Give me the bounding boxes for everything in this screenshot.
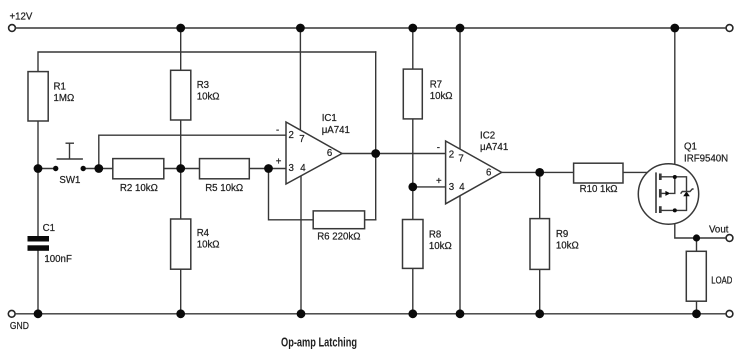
Q1 source internal wire — [662, 196, 687, 210]
Q1 body diode cathode bar — [681, 189, 694, 194]
junction R4 bottom rail — [176, 309, 185, 318]
wire +12V top rail — [16, 27, 726, 29]
wire R1 bottom to main row — [37, 121, 39, 169]
junction node A non-inverting — [264, 164, 273, 173]
wire main row to R4 — [180, 169, 182, 220]
resistor R5 — [200, 159, 250, 179]
wire R4 to GND rail — [180, 269, 182, 314]
wire R10 to Q1 gate — [623, 172, 656, 213]
resistor R1 — [28, 72, 48, 121]
svg-text:SW1: SW1 — [59, 175, 80, 186]
svg-text:3: 3 — [289, 163, 294, 174]
wire R9 top — [539, 172, 541, 218]
op-amp U1 triangle IC1 — [286, 122, 342, 184]
wire R3 top rail — [180, 28, 182, 70]
svg-text:+12V: +12V — [10, 11, 33, 22]
Q1 channel segment middle — [659, 189, 662, 197]
wire Q1 drain to +12V rail — [674, 28, 676, 177]
junction C1 bottom rail — [34, 309, 43, 318]
svg-text:10kΩ: 10kΩ — [556, 241, 579, 252]
wire R7 to +12V rail — [412, 28, 414, 69]
op-amp U2 triangle IC2 — [446, 141, 502, 204]
svg-text:μA741: μA741 — [322, 125, 350, 136]
resistor R7 — [403, 69, 422, 119]
Q1 body tie wire — [670, 177, 675, 193]
wire feedback vertical — [375, 52, 377, 220]
svg-text:2: 2 — [449, 150, 454, 161]
svg-text:R1: R1 — [54, 82, 66, 93]
wire R8 to GND rail — [412, 268, 414, 313]
svg-text:R2 10kΩ: R2 10kΩ — [120, 183, 158, 194]
Q1 body arrow head — [665, 191, 670, 196]
wire R2 to R5 — [164, 168, 200, 170]
wire R5 to IC1 non-inverting input — [249, 168, 286, 170]
svg-text:R3: R3 — [197, 80, 209, 91]
junction IC1 pin4 bottom rail — [297, 309, 306, 318]
wire LOAD top — [696, 238, 698, 251]
resistor R4 — [171, 219, 191, 269]
junction IC2 pin4 bottom rail — [456, 309, 465, 318]
junction Vout-LOAD — [693, 234, 700, 241]
resistor R8 — [403, 220, 424, 269]
svg-text:R7: R7 — [430, 80, 442, 91]
svg-text:7: 7 — [458, 154, 463, 165]
wire R7 to R8 column — [412, 119, 414, 220]
terminal +12V — [9, 25, 16, 32]
svg-text:+: + — [276, 156, 282, 167]
svg-text:4: 4 — [300, 163, 306, 174]
wire main row SW1 left — [38, 168, 56, 170]
wire R9 to GND rail — [539, 269, 541, 313]
wire C1 to GND rail — [37, 251, 39, 314]
svg-text:R9: R9 — [556, 229, 568, 240]
switch SW1 — [53, 143, 86, 171]
resistor R6 — [313, 211, 364, 229]
svg-text:7: 7 — [299, 134, 304, 145]
junction R9 bottom rail — [535, 309, 544, 318]
svg-text:μA741: μA741 — [480, 142, 508, 153]
junction R2-R5-R3 main row — [176, 164, 185, 173]
svg-text:IC1: IC1 — [322, 113, 337, 124]
wire feedback top horizontal — [38, 52, 376, 72]
junction node B right of SW1 — [94, 164, 103, 173]
Q1 body arrow line — [662, 192, 667, 194]
svg-text:Q1: Q1 — [684, 142, 697, 153]
svg-text:R8: R8 — [429, 230, 441, 241]
svg-text:10kΩ: 10kΩ — [430, 91, 453, 102]
terminal bottom-right — [726, 310, 733, 317]
wire node A to R6 left — [269, 169, 314, 220]
terminal Vout — [726, 235, 733, 242]
wire IC2 pin4 to GND rail — [459, 196, 461, 314]
svg-text:4: 4 — [459, 182, 465, 193]
junction R3 top rail — [176, 24, 185, 33]
junction Q1 drain top rail — [670, 24, 679, 33]
svg-text:Op-amp Latching: Op-amp Latching — [281, 335, 357, 350]
wire node to IC1 inverting input — [99, 135, 286, 168]
wire IC2 non-inverting input — [413, 186, 446, 188]
Q1 drain internal wire — [662, 177, 687, 192]
junction LOAD bottom rail — [692, 309, 701, 318]
svg-text:10kΩ: 10kΩ — [429, 241, 452, 252]
resistor R9 — [530, 219, 550, 270]
wire IC1 output row — [342, 153, 446, 155]
svg-text:3: 3 — [449, 182, 454, 193]
svg-text:R5 10kΩ: R5 10kΩ — [205, 183, 243, 194]
junction IC2 pin7 top rail — [456, 24, 465, 33]
svg-text:IRF9540N: IRF9540N — [684, 154, 728, 165]
load resistor LOAD — [686, 251, 706, 301]
svg-text:IC2: IC2 — [480, 130, 495, 141]
junction IC2 plus input — [408, 183, 417, 192]
junction R8 bottom rail — [408, 309, 417, 318]
junction IC1 output — [371, 149, 380, 158]
svg-text:GND: GND — [10, 321, 29, 332]
svg-text:2: 2 — [289, 130, 294, 141]
junction Q1 source internal — [673, 208, 677, 212]
wire main row to C1 — [37, 169, 39, 237]
terminal top-right — [726, 25, 733, 32]
svg-text:6: 6 — [486, 168, 491, 179]
transistor Q1 internals — [656, 172, 694, 213]
transistor Q1 body circle — [638, 164, 698, 224]
svg-text:100nF: 100nF — [44, 254, 72, 265]
svg-text:10kΩ: 10kΩ — [197, 240, 220, 251]
wire SW1 right to node — [83, 168, 113, 170]
svg-text:1MΩ: 1MΩ — [54, 93, 75, 104]
wire R3 bottom to main row — [180, 120, 182, 169]
svg-text:+: + — [436, 176, 442, 187]
svg-text:10kΩ: 10kΩ — [197, 92, 220, 103]
wire R6 right to output node — [365, 219, 376, 221]
junction IC1 pin7 top rail — [296, 24, 305, 33]
svg-text:R4: R4 — [197, 228, 210, 239]
svg-text:Vout: Vout — [709, 225, 729, 236]
Q1 body diode triangle — [683, 191, 690, 196]
capacitor C1 — [28, 236, 50, 251]
wire IC1 pin4 to GND rail — [300, 176, 302, 314]
wire IC2 pin7 to +12V rail — [459, 28, 461, 149]
wire IC2 output row — [502, 171, 574, 173]
wire LOAD to GND rail — [696, 301, 698, 314]
Q1 gate bar — [655, 172, 657, 213]
junction Q1 drain internal — [673, 175, 677, 179]
svg-text:R6 220kΩ: R6 220kΩ — [317, 232, 360, 243]
svg-text:6: 6 — [327, 148, 332, 159]
wire IC1 pin7 to +12V rail — [299, 28, 301, 131]
svg-text:-: - — [437, 143, 440, 154]
svg-text:C1: C1 — [43, 223, 55, 234]
svg-text:R10 1kΩ: R10 1kΩ — [580, 184, 618, 195]
wire GND bottom rail — [16, 313, 726, 315]
junction SW1 left column — [34, 164, 43, 173]
svg-text:LOAD: LOAD — [711, 276, 732, 287]
resistor R3 — [171, 70, 191, 120]
svg-text:-: - — [276, 125, 279, 136]
resistor R10 — [574, 163, 623, 183]
terminal GND — [8, 310, 15, 317]
junction R7 top rail — [408, 24, 417, 33]
wire Q1 source to Vout row — [675, 210, 726, 238]
resistor R2 — [113, 159, 164, 179]
Q1 channel segment top — [659, 174, 662, 181]
Q1 channel segment bottom — [659, 206, 662, 213]
junction IC2 output — [535, 168, 544, 177]
